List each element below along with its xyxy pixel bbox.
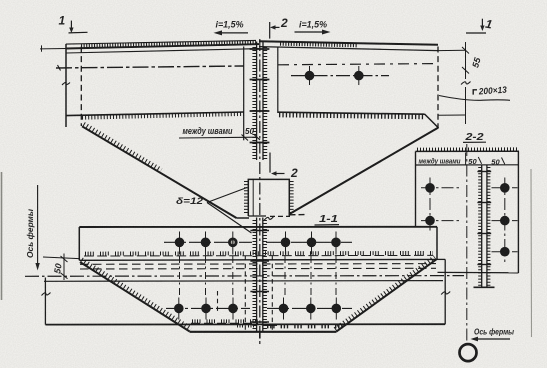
plate 2-2 band inner line <box>416 164 520 166</box>
plate 2-2 right edge <box>517 151 519 273</box>
weld comb on left diagonal <box>84 124 162 170</box>
break squiggle chord left <box>42 293 51 296</box>
row2 gauge line right group <box>267 307 352 309</box>
2-2 row1 gauge left <box>421 187 459 189</box>
weld group underlines bottom left <box>191 322 258 324</box>
weld comb top flange left <box>81 43 256 47</box>
left beam dashed end line <box>80 47 82 127</box>
hidden dashed line a <box>80 263 436 266</box>
2-2 row3 gauge right <box>492 251 518 253</box>
angle symbol for 200x13 <box>473 90 477 95</box>
bolt S1 <box>425 183 435 193</box>
web section line left <box>256 218 258 332</box>
2-2 row1 gauge right <box>492 187 518 189</box>
central web line left <box>256 42 258 161</box>
2-2 web comb right <box>487 167 490 286</box>
gusset right diagonal <box>289 128 438 215</box>
bolt R2c <box>228 298 238 320</box>
central web line right <box>262 42 264 161</box>
bolt R2f <box>332 298 342 320</box>
web stitch bars 2-2 <box>477 172 491 265</box>
right beam centerline dashes <box>278 64 436 65</box>
scan edge artifact left <box>1 172 3 300</box>
column circle <box>460 344 477 361</box>
plate 2-2 bottom edge <box>438 271 519 273</box>
bolt S2 <box>425 216 435 226</box>
bolt column dash lines 1-1 <box>180 256 337 296</box>
web comb right <box>263 220 267 330</box>
splice plate right edge <box>436 227 438 260</box>
top flange inner line left <box>66 49 259 53</box>
bolt R1e <box>307 232 317 255</box>
truss axis line <box>25 275 464 278</box>
section mark 2 top <box>270 22 280 39</box>
support block inner web line <box>252 179 254 216</box>
section mark 1 left arrow <box>69 21 88 33</box>
web weld comb right side <box>263 47 267 159</box>
centerline left tick <box>58 65 61 71</box>
support block bottom dashed part <box>270 215 290 217</box>
label 2-2 <box>463 131 486 143</box>
weld comb bottom flange right <box>279 115 424 117</box>
splice plate top edge <box>79 226 437 228</box>
scan edge artifact right <box>530 169 533 337</box>
2-2 web line left <box>481 165 483 287</box>
gusset lower left diagonal <box>80 262 190 331</box>
weld comb above 2-2 top <box>417 147 519 151</box>
right end vertical <box>444 259 446 324</box>
weld groups far left small <box>237 324 257 327</box>
plate 2-2 left edge <box>415 151 417 226</box>
web stitch bars top view <box>250 49 270 143</box>
weld comb lower right diagonal <box>335 257 435 329</box>
slope arrow left <box>214 30 249 35</box>
web stub below <box>259 332 261 339</box>
short line right of web bottom <box>266 324 277 326</box>
section mark 1 right arrow <box>466 19 486 33</box>
bolt R1b <box>201 232 211 255</box>
row1 gauge line right group <box>266 241 352 243</box>
weld comb top flange right <box>280 43 358 45</box>
break squiggle right vertical <box>441 292 450 295</box>
bolt S4 <box>500 216 510 226</box>
top edge extension left with tick <box>40 45 66 51</box>
web stitch bars 1-1 <box>250 231 269 323</box>
right beam bolt gauge line <box>291 75 389 77</box>
web weld comb left side <box>252 47 256 159</box>
bolt R2a <box>174 298 184 320</box>
gusset bottom edge <box>190 331 337 333</box>
bolt S5 <box>500 247 510 257</box>
axis label arrow left <box>35 185 39 271</box>
bolt S3 <box>500 183 510 193</box>
weld tick groups under plate <box>85 251 433 256</box>
section mark 2 lower <box>270 153 285 176</box>
2-2 right bolt column line <box>504 178 506 263</box>
2-2 left bolt column line <box>429 178 431 232</box>
2-2 web bottom cap <box>474 286 495 288</box>
hidden stiffener dashed left <box>244 256 246 331</box>
splice plate bottom edge <box>79 258 437 261</box>
gusset right shelf <box>290 214 308 216</box>
2-2 row2 gauge right <box>492 220 518 222</box>
bolt R1a <box>175 232 185 255</box>
splice plate left edge <box>78 227 80 260</box>
weld comb bottom flange left <box>82 114 244 118</box>
dimension 50 left <box>61 254 68 281</box>
dimension between welds underline <box>179 134 260 141</box>
right beam bottom edge extension <box>438 114 466 116</box>
bolt R2d <box>279 298 289 320</box>
label 1-1 <box>315 213 340 225</box>
bolt R2e <box>306 298 316 320</box>
break squiggle on dim line <box>461 82 471 85</box>
top flange inner line right extension to dim <box>438 49 466 51</box>
break squiggle at block bottom <box>264 216 274 221</box>
splice plate top thin edge left <box>66 40 256 44</box>
chord bottom long line <box>45 323 445 325</box>
right beam bottom edge <box>278 112 425 114</box>
chord top line <box>44 280 443 283</box>
weld groups above gusset bottom left <box>192 319 258 323</box>
top flange inner line right <box>259 47 438 51</box>
band tick b <box>478 157 481 164</box>
bolt R2b <box>201 298 211 320</box>
plate step right horizontal <box>437 258 445 260</box>
gusset lower right diagonal <box>337 259 437 331</box>
2-2 centerline vertical <box>466 144 468 344</box>
dimension line 55 right <box>462 42 469 124</box>
support block outline <box>248 179 289 216</box>
left beam bottom edge <box>66 112 244 116</box>
band tick a <box>465 153 467 165</box>
web section line right <box>262 218 264 332</box>
band tick c <box>502 158 505 165</box>
block weld comb right <box>290 181 294 215</box>
2-2 web comb left <box>478 167 481 286</box>
row1 gauge line left group <box>164 241 252 243</box>
2-2 web line right <box>486 165 488 287</box>
more groups appended below <box>164 144 519 361</box>
weld groups above gusset bottom right <box>267 325 344 329</box>
bolt R1d <box>281 232 291 255</box>
gusset left diagonal <box>82 126 237 218</box>
delta=12 leader lines <box>207 188 252 234</box>
plate 2-2 top edge <box>416 150 520 152</box>
row2 gauge line left group <box>166 307 250 309</box>
left beam centerline <box>56 66 244 68</box>
web comb left <box>252 220 256 330</box>
support block bottom edge <box>248 215 266 217</box>
left beam end edge <box>65 44 67 127</box>
left beam inner end vertical <box>243 47 245 141</box>
right beam bottom chamfer <box>425 114 439 128</box>
right beam dashed end line <box>437 47 439 129</box>
weld group underlines <box>84 254 433 257</box>
hidden stiffener dashed right <box>271 256 273 331</box>
plate bottom extension left <box>43 257 79 259</box>
bolt B2 <box>354 66 364 85</box>
bolt R1f <box>331 232 341 255</box>
hidden dashed line b <box>80 267 436 270</box>
truss axis arrow bottom right <box>471 337 511 342</box>
top chord top edge right <box>259 41 438 45</box>
right beam inner end vertical <box>277 47 279 114</box>
bolt B1 <box>305 66 315 85</box>
bolt R1c <box>228 232 238 255</box>
chord left end edge <box>44 278 46 325</box>
2-2 row2 gauge left <box>421 220 460 222</box>
leader curve for 200x13 <box>439 96 510 101</box>
gusset left shelf <box>237 217 250 219</box>
weld comb lower left diagonal <box>82 259 192 328</box>
top chord thick edge left <box>66 44 259 48</box>
break squiggle on left edge <box>62 83 70 86</box>
centerline dot below <box>259 341 261 344</box>
main vertical centerline <box>259 39 261 338</box>
hidden edge dashed small <box>217 291 219 313</box>
slope arrow right <box>295 30 331 35</box>
block weld comb left <box>244 181 248 215</box>
